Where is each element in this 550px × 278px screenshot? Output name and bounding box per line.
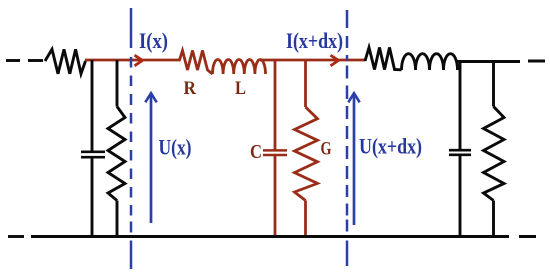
resistor (right shunt, black) bottom lead	[492, 201, 495, 237]
resistor (left shunt, black) top lead	[116, 60, 119, 107]
svg-text:I(x): I(x)	[139, 28, 168, 53]
wire bottom-right dash	[519, 235, 536, 238]
resistor G1 bottom lead	[304, 201, 307, 237]
capacitor (left shunt, black) plates	[81, 152, 105, 157]
wire top right	[456, 60, 520, 63]
svg-text:I(x+dx): I(x+dx)	[286, 28, 343, 53]
capacitor C1 bottom lead	[274, 155, 277, 237]
svg-text:R: R	[184, 78, 197, 99]
svg-text:C: C	[250, 141, 262, 163]
inductor (series, right line section, black, 4 loops)	[402, 54, 458, 70]
capacitor (right shunt, black) top lead	[459, 62, 462, 151]
inductor L1 (series, red, 5 loops)	[213, 59, 266, 74]
wire top-left dash segment 2	[28, 59, 43, 62]
wire top rail red segment from left resistor to R	[85, 59, 178, 62]
resistor (right shunt, black) zigzag	[484, 107, 505, 201]
capacitor (right shunt, black) plates	[449, 150, 471, 155]
resistor (series, left line section, black zigzag)	[45, 49, 86, 74]
capacitor C1 (shunt, red) top lead	[274, 60, 277, 150]
resistor G1 (shunt, red) top lead	[304, 60, 307, 107]
resistor R1 (series, red)	[178, 51, 213, 75]
resistor (left shunt, black) bottom lead	[116, 201, 119, 237]
capacitor (right shunt, black) bottom lead	[459, 155, 462, 237]
arrowhead U(x+dx)	[348, 93, 359, 102]
arrowhead I(x+dx) current arrow	[331, 55, 339, 66]
svg-text:L: L	[235, 78, 246, 99]
resistor (right shunt, black) top lead	[492, 62, 495, 107]
wire bottom rail	[31, 235, 509, 238]
wire bottom-left dash	[8, 235, 24, 238]
arrow U(x+dx) shaft	[353, 95, 356, 225]
resistor (series, right line section, black zigzag)	[365, 48, 402, 70]
capacitor (left shunt, black) bottom lead	[91, 157, 94, 236]
wire top-left dash segment 1	[6, 59, 20, 62]
svg-text:U(x+dx): U(x+dx)	[359, 134, 422, 159]
arrowhead U(x)	[145, 93, 156, 102]
boundary x (blue dashed line left)	[130, 8, 133, 269]
arrowhead I(x) current arrow	[135, 55, 143, 66]
boundary x+dx (blue dashed line right)	[346, 10, 349, 266]
arrow U(x) shaft	[150, 95, 153, 223]
wire top rail red segment from L to right resistor	[260, 59, 365, 62]
resistor (left shunt, black) zigzag	[108, 107, 125, 201]
capacitor C1 plates	[263, 150, 287, 155]
svg-text:G: G	[321, 139, 332, 160]
resistor G1 zigzag	[295, 107, 318, 201]
svg-text:U(x): U(x)	[159, 135, 192, 160]
capacitor (left shunt, black) top lead	[91, 60, 94, 151]
wire top-right dash	[528, 60, 545, 63]
